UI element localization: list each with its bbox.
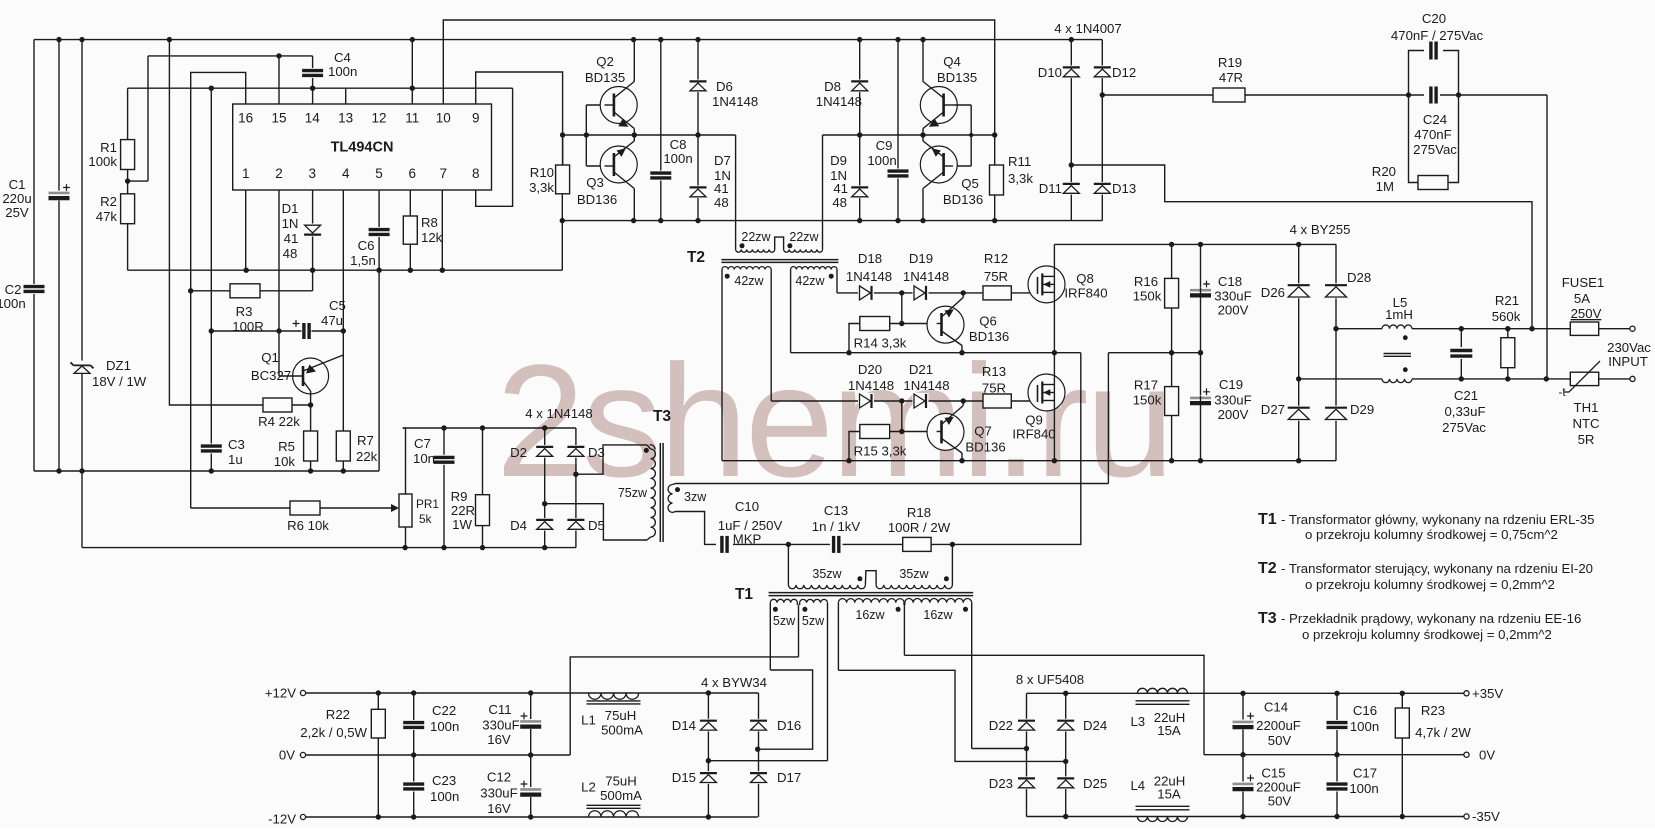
wire base bracket right: [970, 105, 972, 166]
svg-text:T2: T2: [687, 249, 705, 266]
svg-text:D12: D12: [1112, 65, 1136, 80]
wire mid bus 352: [791, 352, 1081, 354]
svg-text:C23: C23: [432, 773, 456, 788]
svg-text:C18: C18: [1218, 274, 1242, 289]
svg-text:330uF: 330uF: [482, 718, 519, 733]
wire 16zw center tap to 0V right: [904, 655, 1204, 754]
svg-text:DZ1: DZ1: [106, 358, 131, 373]
diode D2: [536, 445, 554, 458]
wire Q2 collector to bus: [633, 40, 635, 82]
diode D10: [1062, 66, 1080, 79]
svg-text:10n: 10n: [413, 451, 435, 466]
svg-text:- Transformator główny, wykon: - Transformator główny, wykonany na rdze…: [1281, 512, 1594, 527]
svg-text:1N4148: 1N4148: [903, 269, 949, 284]
wire C1 column: [58, 40, 60, 471]
wire 5zw outer b to D14 junction: [708, 760, 827, 762]
junction dots: [1296, 242, 1301, 247]
wire R19 to C24: [1245, 94, 1424, 96]
svg-text:BD136: BD136: [577, 192, 617, 207]
svg-text:D10: D10: [1038, 65, 1062, 80]
resistor R9: [482, 428, 484, 548]
svg-text:75R: 75R: [984, 269, 1008, 284]
svg-text:IRF840: IRF840: [1064, 286, 1107, 301]
svg-text:D25: D25: [1083, 776, 1107, 791]
capacitor C15 (electrolytic): [1242, 755, 1244, 817]
svg-text:3zw: 3zw: [684, 490, 707, 504]
diode D14: [699, 719, 717, 732]
wire AC line upper: [1336, 328, 1382, 330]
capacitor C23: [413, 755, 415, 817]
junction dots: [1169, 242, 1174, 247]
wire top supply bus: [34, 39, 1102, 41]
svg-text:100n: 100n: [867, 153, 896, 168]
transformer T3 core: [659, 443, 661, 542]
wire Q8 gate entry: [1037, 284, 1039, 293]
transistor Q4 BD135: [920, 87, 957, 124]
terminal AC L: [1630, 326, 1635, 331]
svg-text:- Transformator sterujący, wy: - Transformator sterujący, wykonany na r…: [1281, 561, 1593, 576]
wire R17 bottom: [1171, 416, 1173, 461]
wire 0V rail left: [306, 754, 571, 756]
wire Q7 collector down: [961, 453, 963, 461]
svg-text:42zw: 42zw: [795, 274, 825, 288]
svg-text:4 x BY255: 4 x BY255: [1290, 222, 1351, 237]
svg-text:5A: 5A: [1574, 291, 1590, 306]
svg-text:14: 14: [305, 111, 321, 126]
svg-text:C12: C12: [487, 770, 511, 785]
svg-text:D2: D2: [510, 445, 527, 460]
svg-text:BD136: BD136: [969, 329, 1009, 344]
svg-text:NTC: NTC: [1572, 416, 1600, 431]
junction dots: [1459, 326, 1464, 331]
svg-text:C8: C8: [670, 137, 687, 152]
wire AC line lower: [1299, 378, 1382, 380]
wire D12/D13 column: [1101, 40, 1103, 221]
transistor Q7 BD136: [927, 413, 964, 450]
wire gnd line 270: [128, 269, 563, 271]
transformer T1 secondary 16zw b: [905, 599, 972, 603]
diode D22/D23 column: [1026, 693, 1028, 816]
svg-text:Q9: Q9: [1025, 413, 1043, 428]
wire gnd bus 471: [34, 470, 379, 472]
capacitor C12 (electrolytic): [530, 755, 532, 817]
diode D24: [1057, 719, 1075, 732]
svg-text:41: 41: [714, 181, 729, 196]
svg-text:8: 8: [472, 166, 480, 181]
svg-text:D6: D6: [716, 79, 733, 94]
svg-text:R6 10k: R6 10k: [287, 518, 329, 533]
wire Q4 collector to bus: [922, 40, 924, 82]
svg-text:C22: C22: [432, 703, 456, 718]
wire: [147, 56, 149, 181]
svg-text:D16: D16: [777, 718, 801, 733]
svg-text:BD136: BD136: [965, 440, 1005, 455]
diode D6: [689, 80, 707, 93]
svg-text:16: 16: [238, 111, 253, 126]
wire R15 left leg: [849, 432, 860, 461]
svg-text:5R: 5R: [1578, 432, 1595, 447]
capacitor C21: [1460, 329, 1462, 379]
capacitor C2: [23, 284, 46, 294]
svg-text:D27: D27: [1261, 402, 1285, 417]
capacitor C8 column: [660, 40, 662, 221]
svg-text:75R: 75R: [982, 381, 1006, 396]
resistor R4: [263, 398, 292, 412]
svg-text:1N4148: 1N4148: [816, 94, 862, 109]
svg-text:25V: 25V: [5, 205, 29, 220]
svg-text:TH1: TH1: [1574, 400, 1599, 415]
zener DZ1: [73, 361, 91, 374]
transistor Q2 BD135: [600, 87, 637, 124]
svg-text:o przekroju kolumny środkowej: o przekroju kolumny środkowej = 0,2mm^2: [1302, 627, 1552, 642]
svg-text:3: 3: [309, 166, 317, 181]
inductor L2: [589, 811, 639, 817]
svg-text:1N4148: 1N4148: [846, 269, 892, 284]
svg-text:3,3k: 3,3k: [529, 180, 554, 195]
svg-text:18V / 1W: 18V / 1W: [92, 374, 147, 389]
diode D11: [1062, 182, 1080, 195]
svg-text:11: 11: [405, 111, 419, 126]
svg-text:6: 6: [409, 166, 417, 181]
svg-text:41: 41: [284, 231, 299, 246]
terminal +35V: [1464, 691, 1469, 696]
transformer T2 primary 22zw b: [784, 249, 823, 252]
svg-text:1u: 1u: [228, 452, 243, 467]
svg-text:4 x 1N4148: 4 x 1N4148: [525, 406, 592, 421]
wire pin6 column: [409, 190, 411, 270]
svg-text:R18: R18: [907, 505, 931, 520]
svg-text:150k: 150k: [1133, 289, 1162, 304]
svg-text:D13: D13: [1112, 181, 1136, 196]
svg-text:R16: R16: [1134, 274, 1158, 289]
svg-text:15A: 15A: [1157, 787, 1181, 802]
resistor R15: [860, 425, 890, 439]
svg-text:470nF / 275Vac: 470nF / 275Vac: [1391, 28, 1484, 43]
svg-text:C21: C21: [1454, 388, 1478, 403]
wire: [733, 543, 830, 545]
wire 16zw outer b to D22/D23 junction: [972, 748, 1027, 750]
svg-text:C10: C10: [735, 499, 759, 514]
wire: [33, 40, 35, 287]
svg-text:C1: C1: [9, 177, 26, 192]
svg-text:C16: C16: [1353, 703, 1377, 718]
resistor R14: [860, 317, 890, 331]
diode D23: [1018, 777, 1036, 790]
transformer T2 core: [721, 259, 838, 261]
capacitor C9: [887, 169, 910, 179]
wire Q1 collector column: [310, 391, 312, 431]
fuse FUSE1: [1570, 322, 1598, 335]
diode D26: [1287, 283, 1310, 298]
potentiometer PR1: [405, 428, 407, 494]
capacitor C24: [1429, 86, 1439, 105]
wire: [843, 543, 903, 545]
transformer T2 secondary 42zw b: [791, 267, 837, 270]
wire: [33, 291, 35, 471]
resistor R1: [121, 140, 135, 170]
svg-text:9: 9: [472, 111, 480, 126]
svg-text:L4: L4: [1130, 778, 1145, 793]
svg-text:48: 48: [283, 246, 298, 261]
capacitor C3: [200, 444, 223, 454]
svg-text:D24: D24: [1083, 718, 1107, 733]
svg-text:230Vac: 230Vac: [1607, 340, 1651, 355]
svg-text:16V: 16V: [487, 732, 511, 747]
wire 0V right rail: [1204, 754, 1464, 756]
svg-text:R22: R22: [326, 707, 350, 722]
wire C7 column: [443, 428, 445, 548]
svg-text:22k: 22k: [356, 449, 378, 464]
svg-text:Q7: Q7: [974, 424, 992, 439]
svg-text:Q6: Q6: [979, 314, 997, 329]
svg-text:D5: D5: [588, 518, 605, 533]
svg-text:R5: R5: [278, 439, 295, 454]
svg-text:C14: C14: [1264, 700, 1288, 715]
capacitor C19 (electrolytic): [1189, 396, 1212, 406]
wire R16/C18 columns: [1171, 244, 1173, 278]
svg-text:T3: T3: [653, 408, 671, 425]
wire pin3/D1 column: [312, 190, 314, 291]
resistor R13: [983, 394, 1011, 408]
svg-text:1N4148: 1N4148: [848, 378, 894, 393]
wire R14 line: [890, 323, 937, 325]
resistor R7: [336, 431, 350, 461]
wire T2 primary left feed: [735, 135, 737, 249]
wire gate line Q8: [837, 292, 983, 294]
svg-text:100n: 100n: [430, 789, 459, 804]
svg-text:C24: C24: [1423, 112, 1447, 127]
svg-text:Q5: Q5: [961, 176, 979, 191]
svg-text:R23: R23: [1421, 703, 1445, 718]
svg-text:C4: C4: [334, 50, 351, 65]
wire Q7 emitter up: [962, 401, 964, 406]
resistor R10: [556, 165, 570, 194]
svg-text:100n: 100n: [663, 151, 692, 166]
svg-text:13: 13: [338, 111, 353, 126]
wire DZ1 column: [81, 40, 83, 548]
svg-text:5zw: 5zw: [773, 614, 796, 628]
svg-text:-35V: -35V: [1472, 809, 1500, 824]
wire pin16 line: [191, 72, 246, 508]
svg-text:48: 48: [714, 195, 729, 210]
diode D1: [304, 224, 322, 237]
svg-text:D14: D14: [672, 718, 696, 733]
resistor R11: [990, 165, 1004, 195]
capacitor C8: [649, 171, 672, 181]
wire R14 left leg: [849, 324, 860, 353]
svg-text:1: 1: [242, 166, 250, 181]
diode D24/D25 column: [1065, 693, 1067, 816]
svg-text:o przekroju kolumny środkowej: o przekroju kolumny środkowej = 0,2mm^2: [1305, 577, 1555, 592]
capacitor C7: [433, 455, 456, 465]
svg-text:12: 12: [371, 111, 386, 126]
diode D8/D9 column: [859, 40, 861, 221]
wire D12/D13 mid to R19: [1102, 94, 1213, 96]
svg-text:C5: C5: [329, 298, 346, 313]
svg-text:2,2k / 0,5W: 2,2k / 0,5W: [300, 725, 367, 740]
svg-text:R10: R10: [530, 165, 554, 180]
svg-text:C9: C9: [876, 138, 893, 153]
resistor R17: [1165, 387, 1179, 416]
wire pin2 column: [278, 190, 280, 376]
diode D8: [851, 80, 869, 93]
svg-text:1n / 1kV: 1n / 1kV: [812, 519, 861, 534]
junction dots: [899, 290, 904, 295]
capacitor C13: [831, 535, 841, 554]
svg-text:D21: D21: [909, 362, 933, 377]
wire pin7 column: [441, 190, 443, 270]
diode D4: [536, 518, 554, 531]
junction dots: [1063, 691, 1068, 696]
svg-text:0,33uF: 0,33uF: [1444, 404, 1485, 419]
wire R15 line: [890, 431, 937, 433]
wire PR1 arrow: [391, 504, 399, 512]
svg-text:10: 10: [436, 111, 451, 126]
svg-text:10k: 10k: [274, 454, 296, 469]
svg-text:R7: R7: [357, 433, 374, 448]
wire D10/D11 mid route to fuse line: [1071, 165, 1532, 329]
wire R3 line: [191, 290, 313, 292]
svg-text:- Przekładnik prądowy, wykona: - Przekładnik prądowy, wykonany na rdzen…: [1281, 611, 1581, 626]
wire C24 right: [1440, 94, 1547, 96]
wire C5 line: [211, 330, 343, 332]
wire bottom bus 460: [722, 460, 1336, 462]
wire -12V rail: [306, 816, 758, 818]
svg-text:500mA: 500mA: [601, 723, 643, 738]
inductor L4: [1137, 817, 1187, 822]
svg-text:4,7k / 2W: 4,7k / 2W: [1415, 725, 1471, 740]
resistor R21: [1507, 329, 1509, 379]
wire R16 bottom: [1171, 308, 1173, 353]
diode D25: [1057, 777, 1075, 790]
svg-text:500mA: 500mA: [600, 788, 642, 803]
mosfet Q9 IRF840: [1028, 374, 1065, 411]
wire upper after L5: [1412, 328, 1570, 330]
svg-text:R17: R17: [1134, 378, 1158, 393]
svg-text:INPUT: INPUT: [1608, 354, 1648, 369]
junction dots: [573, 472, 578, 477]
wire T2 primary right feed: [822, 135, 824, 249]
svg-text:470nF: 470nF: [1414, 127, 1451, 142]
svg-text:12k: 12k: [421, 230, 443, 245]
capacitor C20 parallel branch: [1409, 51, 1425, 96]
svg-text:BD136: BD136: [943, 192, 983, 207]
svg-text:R8: R8: [421, 215, 438, 230]
mosfet Q8 IRF840: [1028, 266, 1065, 303]
wire Q5 emitter to node: [922, 135, 924, 141]
junction dots: [209, 328, 214, 333]
wire R1-R2 junction stub: [128, 180, 148, 182]
diode D21: [913, 393, 929, 409]
diode D9: [851, 186, 869, 199]
junction dots: [1406, 92, 1411, 97]
wire T3 primary top route: [576, 445, 647, 474]
wire D2 bridge top line: [403, 427, 576, 429]
wire R4 line: [169, 40, 310, 405]
terminal AC N: [1630, 376, 1635, 381]
capacitor C22: [413, 693, 415, 755]
inductor L5 common mode choke: [1382, 325, 1412, 329]
svg-text:42zw: 42zw: [734, 274, 764, 288]
wire Q2 emitter to node: [633, 129, 635, 136]
transformer T2 secondary 42zw a: [722, 267, 771, 270]
svg-text:47k: 47k: [96, 209, 118, 224]
diode D13: [1093, 182, 1111, 195]
svg-text:5: 5: [375, 166, 383, 181]
wire 5zw outer to D16 junction: [758, 670, 813, 749]
svg-text:C17: C17: [1353, 766, 1377, 781]
svg-text:Q8: Q8: [1076, 271, 1094, 286]
resistor R19: [1213, 88, 1245, 102]
junction dots: [560, 132, 565, 137]
wire Q9 gate entry: [1037, 393, 1039, 402]
svg-text:L1: L1: [581, 713, 596, 728]
capacitor C4: [312, 56, 314, 88]
svg-text:C3: C3: [228, 437, 245, 452]
svg-text:15: 15: [271, 111, 286, 126]
svg-text:0V: 0V: [279, 748, 295, 763]
diode D6/D7 column: [697, 40, 699, 221]
svg-text:D7: D7: [714, 153, 731, 168]
svg-text:+35V: +35V: [1472, 686, 1503, 701]
diode D12: [1093, 66, 1111, 79]
svg-text:R9: R9: [451, 489, 468, 504]
thermistor TH1: [1570, 372, 1598, 385]
transistor Q3 BD136: [600, 146, 637, 183]
diode D29: [1325, 406, 1348, 421]
svg-text:100n: 100n: [328, 64, 357, 79]
svg-text:5k: 5k: [419, 512, 432, 526]
svg-text:1N4148: 1N4148: [712, 94, 758, 109]
svg-text:3,3k: 3,3k: [1008, 171, 1033, 186]
junction dots: [899, 398, 904, 403]
svg-text:16V: 16V: [487, 801, 511, 816]
wire R1 column: [127, 88, 129, 270]
wire +12V rail: [306, 692, 759, 694]
diode D14/D15 column: [707, 693, 709, 817]
svg-text:330uF: 330uF: [480, 786, 517, 801]
svg-text:35zw: 35zw: [899, 567, 929, 581]
wire pin5/C6 column: [378, 190, 380, 471]
wire pin14 stub: [312, 88, 314, 104]
diode D17: [750, 771, 768, 784]
wire feedback to 3zw node: [1107, 353, 1109, 484]
svg-text:200V: 200V: [1218, 407, 1249, 422]
svg-text:-12V: -12V: [268, 812, 296, 827]
svg-text:D22: D22: [989, 718, 1013, 733]
svg-text:TL494CN: TL494CN: [331, 140, 394, 156]
svg-text:R14 3,3k: R14 3,3k: [854, 336, 907, 351]
diode D28: [1325, 283, 1348, 298]
capacitor C16: [1336, 693, 1338, 754]
wire bottom line 547: [82, 547, 576, 549]
svg-text:48: 48: [832, 195, 847, 210]
resistor R20 parallel branch: [1409, 95, 1419, 183]
svg-text:5zw: 5zw: [802, 614, 825, 628]
svg-text:R11: R11: [1008, 154, 1031, 169]
resistor R8: [403, 216, 417, 244]
wire 3zw top to R17 node: [676, 483, 1109, 485]
svg-text:2200uF: 2200uF: [1256, 780, 1301, 795]
wire D3/D5 column: [575, 428, 577, 548]
diode D15: [699, 771, 717, 784]
svg-text:R3: R3: [236, 304, 253, 319]
resistor R16: [1165, 278, 1179, 308]
svg-text:T2: T2: [1258, 560, 1277, 577]
capacitor C14 (electrolytic): [1242, 693, 1244, 754]
svg-text:75zw: 75zw: [618, 486, 648, 500]
wire pin10 line: [443, 20, 994, 135]
